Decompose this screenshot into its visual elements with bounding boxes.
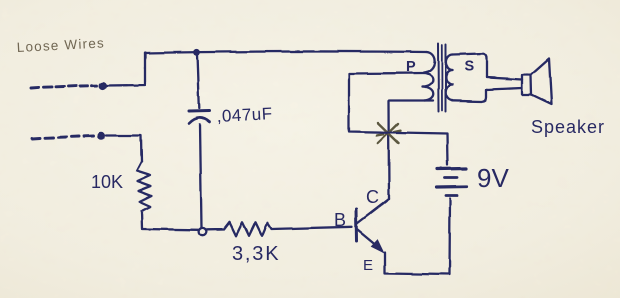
svg-text:Speaker: Speaker — [531, 117, 605, 137]
svg-text:B: B — [334, 210, 346, 230]
svg-text:P: P — [406, 59, 416, 75]
svg-text:C: C — [366, 187, 379, 207]
svg-text:,047uF: ,047uF — [216, 104, 273, 126]
svg-text:10K: 10K — [91, 172, 123, 192]
svg-text:9V: 9V — [477, 163, 509, 193]
svg-text:3,3K: 3,3K — [232, 243, 280, 265]
svg-text:S: S — [465, 59, 475, 75]
svg-text:E: E — [363, 257, 373, 274]
